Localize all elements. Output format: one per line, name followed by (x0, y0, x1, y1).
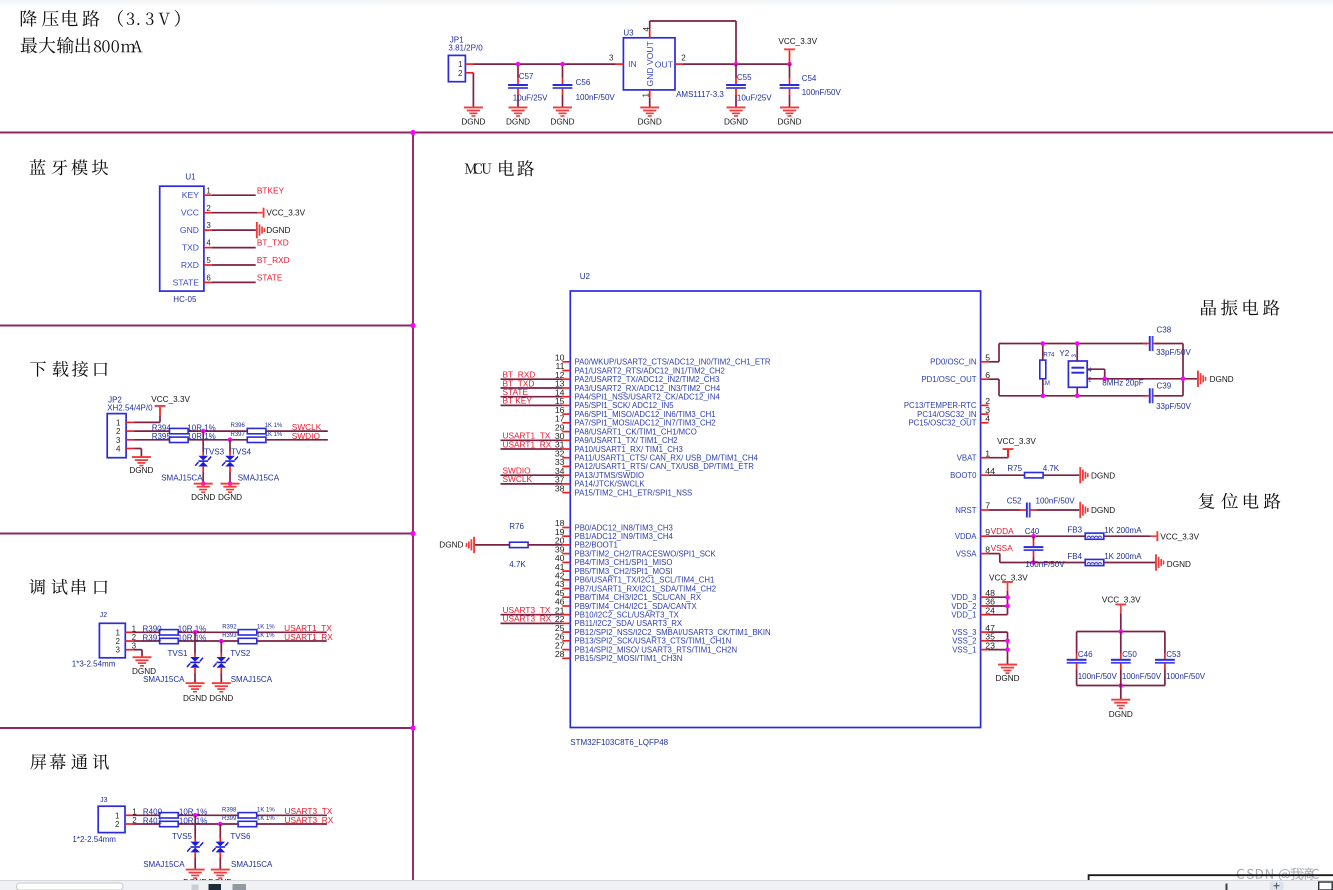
svg-text:PB9/TIM4_CH4/I2C1_SDA/CANTX: PB9/TIM4_CH4/I2C1_SDA/CANTX (575, 602, 698, 611)
svg-text:DGND: DGND (1109, 710, 1133, 719)
svg-text:2: 2 (206, 204, 211, 213)
svg-text:C39: C39 (1157, 382, 1172, 391)
svg-text:R76: R76 (509, 522, 524, 531)
svg-text:VDD_1: VDD_1 (951, 611, 976, 620)
svg-text:38: 38 (555, 483, 565, 493)
svg-text:PB1/ADC12_IN9/TIM3_CH4: PB1/ADC12_IN9/TIM3_CH4 (575, 532, 674, 541)
svg-text:2: 2 (681, 54, 686, 63)
svg-text:PA4/SPI1_NSS/USART2_CK/ADC12_I: PA4/SPI1_NSS/USART2_CK/ADC12_IN4 (575, 393, 721, 402)
svg-text:PA10/USART1_RX/ TIM1_CH3: PA10/USART1_RX/ TIM1_CH3 (575, 445, 683, 454)
svg-text:PB11/I2C2_SDA/ USART3_RX: PB11/I2C2_SDA/ USART3_RX (575, 619, 683, 628)
svg-text:TVS4: TVS4 (231, 448, 252, 457)
svg-text:PB14/SPI2_MISO/ USART3_RTS/TIM: PB14/SPI2_MISO/ USART3_RTS/TIM1_CH2N (575, 645, 738, 654)
svg-text:PA2/USART2_TX/ADC12_IN2/TIM2_C: PA2/USART2_TX/ADC12_IN2/TIM2_CH3 (575, 375, 720, 384)
svg-text:J3: J3 (100, 797, 108, 804)
svg-text:4: 4 (116, 445, 121, 454)
svg-text:C52: C52 (1007, 497, 1022, 506)
svg-text:U2: U2 (580, 272, 591, 281)
svg-text:R401: R401 (143, 816, 163, 825)
svg-text:3: 3 (206, 221, 211, 230)
svg-text:PA0/WKUP/USART2_CTS/ADC12_IN0/: PA0/WKUP/USART2_CTS/ADC12_IN0/TIM2_CH1_E… (575, 358, 771, 367)
svg-text:PA6/SPI1_MISO/ADC12_IN6/TIM3_C: PA6/SPI1_MISO/ADC12_IN6/TIM3_CH1 (575, 410, 716, 419)
svg-text:VCC_3.3V: VCC_3.3V (989, 573, 1028, 582)
svg-text:SMAJ15CA: SMAJ15CA (161, 474, 203, 483)
svg-text:10R 1%: 10R 1% (187, 432, 215, 441)
svg-text:R396: R396 (231, 423, 246, 429)
svg-text:R391: R391 (143, 633, 163, 642)
svg-text:SMAJ15CA: SMAJ15CA (231, 675, 273, 684)
svg-text:R395: R395 (152, 432, 172, 441)
svg-text:TVS1: TVS1 (167, 649, 188, 658)
svg-text:PB6/USART1_TX/I2C1_SCL/TIM4_CH: PB6/USART1_TX/I2C1_SCL/TIM4_CH1 (575, 576, 715, 585)
svg-text:PA13/JTMS/SWDIO: PA13/JTMS/SWDIO (575, 471, 645, 480)
svg-text:SMAJ15CA: SMAJ15CA (231, 860, 273, 869)
svg-text:DGND: DGND (1210, 375, 1234, 384)
svg-text:PB4/TIM3_CH1/SPI1_MISO: PB4/TIM3_CH1/SPI1_MISO (575, 558, 673, 567)
svg-text:BOOT0: BOOT0 (950, 471, 977, 480)
svg-text:PB7/USART1_RX/I2C1_SDA/TIM4_CH: PB7/USART1_RX/I2C1_SDA/TIM4_CH2 (575, 584, 717, 593)
svg-text:STATE: STATE (173, 277, 200, 287)
svg-text:DGND: DGND (439, 540, 463, 549)
svg-text:3: 3 (116, 646, 121, 655)
svg-text:PB12/SPI2_NSS/I2C2_SMBAI/USART: PB12/SPI2_NSS/I2C2_SMBAI/USART3_CK/TIM1_… (575, 628, 771, 637)
svg-text:USART1_RX: USART1_RX (284, 632, 333, 642)
svg-text:PA12/USART1_RTS/ CAN_TX/USB_DP: PA12/USART1_RTS/ CAN_TX/USB_DP/TIM1_ETR (575, 462, 755, 471)
svg-text:SMAJ15CA: SMAJ15CA (238, 474, 280, 483)
svg-text:VCC_3.3V: VCC_3.3V (266, 208, 305, 217)
svg-text:TVS3: TVS3 (204, 448, 225, 457)
svg-text:VCC_3.3V: VCC_3.3V (1102, 595, 1141, 604)
svg-text:10R 1%: 10R 1% (178, 625, 206, 634)
svg-text:C53: C53 (1166, 650, 1181, 659)
svg-text:VSS_2: VSS_2 (952, 637, 976, 646)
svg-text:PB2/BOOT1: PB2/BOOT1 (575, 541, 618, 550)
svg-text:3.81/2P/0: 3.81/2P/0 (448, 44, 483, 53)
svg-text:VDD_3: VDD_3 (951, 593, 976, 602)
svg-text:USART3_RX: USART3_RX (503, 614, 552, 624)
svg-text:R398: R398 (222, 807, 237, 813)
svg-text:2: 2 (458, 69, 463, 78)
svg-text:10uF/25V: 10uF/25V (513, 94, 548, 103)
svg-text:VBAT: VBAT (957, 454, 977, 463)
svg-text:4: 4 (985, 414, 990, 424)
svg-text:R400: R400 (143, 808, 163, 817)
svg-text:PA14/JTCK/SWCLK: PA14/JTCK/SWCLK (575, 480, 646, 489)
svg-text:PD1/OSC_OUT: PD1/OSC_OUT (921, 375, 976, 384)
svg-text:DGND: DGND (1167, 560, 1191, 569)
svg-text:SMAJ15CA: SMAJ15CA (143, 860, 185, 869)
svg-text:DGND: DGND (777, 117, 801, 126)
svg-text:VSS_3: VSS_3 (952, 628, 976, 637)
svg-text:PB13/SPI2_SCK/USART3_CTS/TIM1_: PB13/SPI2_SCK/USART3_CTS/TIM1_CH1N (575, 637, 732, 646)
svg-text:R394: R394 (152, 423, 172, 432)
svg-text:4.7K: 4.7K (509, 560, 526, 569)
svg-text:1K 1%: 1K 1% (265, 432, 283, 438)
svg-text:DGND: DGND (550, 117, 574, 126)
svg-text:10R 1%: 10R 1% (179, 816, 207, 825)
svg-text:Y2: Y2 (1059, 349, 1069, 358)
svg-text:1K 1%: 1K 1% (257, 807, 275, 813)
svg-text:2: 2 (115, 820, 120, 829)
svg-text:PA15/TIM2_CH1_ETR/SPI1_NSS: PA15/TIM2_CH1_ETR/SPI1_NSS (575, 488, 693, 497)
svg-text:USART3_RX: USART3_RX (285, 815, 334, 825)
svg-text:RXD: RXD (181, 260, 199, 270)
svg-text:1: 1 (642, 93, 651, 98)
svg-text:10uF/25V: 10uF/25V (737, 93, 772, 102)
svg-text:TVS2: TVS2 (230, 649, 251, 658)
svg-text:DGND: DGND (995, 674, 1019, 683)
svg-text:100nF/50V: 100nF/50V (1078, 672, 1118, 681)
svg-text:GND VOUT: GND VOUT (645, 40, 655, 86)
svg-text:SWCLK: SWCLK (503, 474, 533, 484)
svg-text:VSSA: VSSA (956, 549, 978, 558)
svg-text:C50: C50 (1122, 650, 1137, 659)
svg-text:PB5/TIM3_CH2/SPI1_MOSI: PB5/TIM3_CH2/SPI1_MOSI (575, 567, 673, 576)
svg-text:100nF/50V: 100nF/50V (802, 88, 842, 97)
svg-text:VCC_3.3V: VCC_3.3V (997, 437, 1036, 446)
svg-text:BTKEY: BTKEY (257, 185, 285, 195)
svg-text:FB4: FB4 (1067, 552, 1082, 561)
svg-text:PB0/ADC12_IN8/TIM3_CH3: PB0/ADC12_IN8/TIM3_CH3 (575, 523, 673, 532)
svg-text:3: 3 (116, 436, 121, 445)
svg-text:1K 1%: 1K 1% (257, 624, 275, 630)
svg-text:KEY: KEY (182, 190, 199, 200)
svg-text:U1: U1 (185, 173, 196, 182)
svg-text:1K 1%: 1K 1% (257, 633, 275, 639)
svg-text:8MHz 20pF: 8MHz 20pF (1102, 379, 1143, 388)
svg-text:SMAJ15CA: SMAJ15CA (143, 675, 185, 684)
svg-text:DGND: DGND (461, 117, 485, 126)
svg-text:C40: C40 (1025, 527, 1040, 536)
svg-text:1: 1 (116, 418, 121, 427)
svg-text:R390: R390 (143, 625, 163, 634)
svg-text:R399: R399 (222, 816, 237, 822)
svg-text:6: 6 (206, 274, 211, 283)
svg-text:2: 2 (116, 637, 121, 646)
svg-text:XH2.54/4P/0: XH2.54/4P/0 (107, 404, 153, 413)
svg-text:5: 5 (206, 256, 211, 265)
svg-text:PA8/USART1_CK/TIM1_CH1/MCO: PA8/USART1_CK/TIM1_CH1/MCO (575, 427, 697, 436)
svg-text:J2: J2 (100, 612, 108, 619)
svg-text:PA9/USART1_TX/ TIM1_CH2: PA9/USART1_TX/ TIM1_CH2 (575, 436, 678, 445)
svg-text:DGND: DGND (218, 493, 242, 502)
svg-text:STATE: STATE (257, 273, 283, 283)
svg-text:C56: C56 (576, 78, 591, 87)
svg-text:VDDA: VDDA (991, 526, 1015, 536)
svg-text:DGND: DGND (191, 493, 215, 502)
svg-text:4: 4 (206, 239, 211, 248)
svg-text:100nF/50V: 100nF/50V (1122, 672, 1162, 681)
svg-text:PB15/SPI2_MOSI/TIM1_CH3N: PB15/SPI2_MOSI/TIM1_CH3N (575, 654, 683, 663)
svg-text:STM32F103C8T6_LQFP48: STM32F103C8T6_LQFP48 (570, 738, 668, 747)
svg-text:DGND: DGND (638, 117, 662, 126)
svg-text:TVS6: TVS6 (230, 832, 251, 841)
svg-text:C38: C38 (1157, 326, 1172, 335)
svg-text:HC-05: HC-05 (173, 295, 197, 304)
svg-text:VCC: VCC (181, 208, 199, 218)
svg-text:DGND: DGND (1091, 471, 1115, 480)
svg-text:BT KEY: BT KEY (503, 396, 533, 406)
svg-text:PC14/OSC32_IN: PC14/OSC32_IN (917, 410, 976, 419)
svg-text:2: 2 (116, 427, 121, 436)
svg-text:USART1_RX: USART1_RX (503, 439, 552, 449)
svg-text:BT_TXD: BT_TXD (257, 237, 289, 247)
svg-text:10R 1%: 10R 1% (178, 633, 206, 642)
svg-text:VDDA: VDDA (955, 532, 977, 541)
svg-text:1: 1 (206, 186, 211, 195)
svg-text:1M: 1M (1042, 381, 1050, 387)
svg-text:1: 1 (458, 60, 463, 69)
svg-text:DGND: DGND (266, 226, 290, 235)
svg-text:R392: R392 (222, 624, 237, 630)
svg-text:33pF/50V: 33pF/50V (1156, 402, 1191, 411)
svg-text:3: 3 (609, 54, 614, 63)
svg-text:NRST: NRST (955, 506, 976, 515)
svg-text:DGND: DGND (724, 117, 748, 126)
svg-text:VDD_2: VDD_2 (951, 602, 976, 611)
svg-text:C55: C55 (737, 73, 752, 82)
svg-text:1K 1%: 1K 1% (257, 816, 275, 822)
svg-text:PA3/USART2_RX/ADC12_IN3/TIM2_C: PA3/USART2_RX/ADC12_IN3/TIM2_CH4 (575, 384, 721, 393)
svg-text:DGND: DGND (1091, 506, 1115, 515)
svg-text:PB8/TIM4_CH3/I2C1_SCL/CAN_RX: PB8/TIM4_CH3/I2C1_SCL/CAN_RX (575, 593, 702, 602)
svg-text:AMS1117-3.3: AMS1117-3.3 (676, 90, 724, 99)
svg-text:OUT: OUT (655, 60, 674, 70)
svg-text:DGND: DGND (506, 117, 530, 126)
svg-text:C46: C46 (1078, 650, 1093, 659)
svg-text:TVS5: TVS5 (172, 832, 193, 841)
svg-text:1*3-2.54mm: 1*3-2.54mm (72, 660, 116, 669)
svg-text:1K 200mA: 1K 200mA (1104, 526, 1142, 535)
svg-text:VSSA: VSSA (991, 543, 1014, 553)
svg-text:PD0/OSC_IN: PD0/OSC_IN (930, 358, 976, 367)
svg-text:R75: R75 (1007, 464, 1022, 473)
svg-text:PA11/USART1_CTS/ CAN_RX/ USB_D: PA11/USART1_CTS/ CAN_RX/ USB_DM/TIM1_CH4 (575, 454, 759, 463)
svg-text:TXD: TXD (182, 243, 199, 253)
svg-text:1: 1 (115, 811, 120, 820)
svg-text:4.7K: 4.7K (1043, 464, 1060, 473)
svg-text:100nF/50V: 100nF/50V (1166, 672, 1206, 681)
svg-text:DGND: DGND (183, 694, 207, 703)
svg-text:R393: R393 (222, 633, 237, 639)
svg-text:100nF/50V: 100nF/50V (1036, 497, 1076, 506)
svg-text:100nF/50V: 100nF/50V (576, 93, 616, 102)
svg-text:DGND: DGND (209, 694, 233, 703)
svg-text:C54: C54 (802, 74, 817, 83)
svg-text:PA7/SPI1_MOSI/ADC12_IN7/TIM3_C: PA7/SPI1_MOSI/ADC12_IN7/TIM3_CH2 (575, 419, 716, 428)
svg-text:1K 200mA: 1K 200mA (1104, 552, 1142, 561)
svg-text:1*2-2.54mm: 1*2-2.54mm (72, 835, 116, 844)
svg-text:PB10/I2C2_SCL/USART3_TX: PB10/I2C2_SCL/USART3_TX (575, 611, 680, 620)
svg-text:FB3: FB3 (1067, 526, 1082, 535)
svg-text:PC13/TEMPER-RTC: PC13/TEMPER-RTC (904, 401, 977, 410)
svg-text:PC15/OSC32_OUT: PC15/OSC32_OUT (908, 419, 976, 428)
svg-text:28: 28 (555, 649, 565, 659)
svg-text:VSS_1: VSS_1 (952, 645, 976, 654)
svg-text:1: 1 (116, 628, 121, 637)
svg-text:33pF/50V: 33pF/50V (1156, 348, 1191, 357)
svg-text:100nF/50V: 100nF/50V (1025, 560, 1065, 569)
svg-text:VCC_3.3V: VCC_3.3V (1160, 533, 1199, 542)
svg-text:GND: GND (180, 225, 199, 235)
svg-text:PA1/USART2_RTS/ADC12_IN1/TIM2_: PA1/USART2_RTS/ADC12_IN1/TIM2_CH2 (575, 366, 725, 375)
svg-text:SWDIO: SWDIO (292, 431, 321, 441)
svg-text:VCC_3.3V: VCC_3.3V (151, 395, 190, 404)
svg-text:U3: U3 (623, 29, 634, 38)
svg-text:DGND: DGND (129, 466, 153, 475)
svg-text:PA5/SPI1_SCK/ ADC12_IN5: PA5/SPI1_SCK/ ADC12_IN5 (575, 401, 675, 410)
svg-text:C57: C57 (519, 72, 534, 81)
svg-text:R397: R397 (231, 432, 246, 438)
svg-text:VCC_3.3V: VCC_3.3V (778, 37, 817, 46)
svg-text:PB3/TIM2_CH2/TRACESWO/SPI1_SCK: PB3/TIM2_CH2/TRACESWO/SPI1_SCK (575, 549, 717, 558)
svg-text:IN: IN (628, 59, 637, 69)
svg-text:R74: R74 (1043, 353, 1055, 359)
svg-text:BT_RXD: BT_RXD (257, 255, 290, 265)
svg-text:1K 1%: 1K 1% (265, 423, 283, 429)
